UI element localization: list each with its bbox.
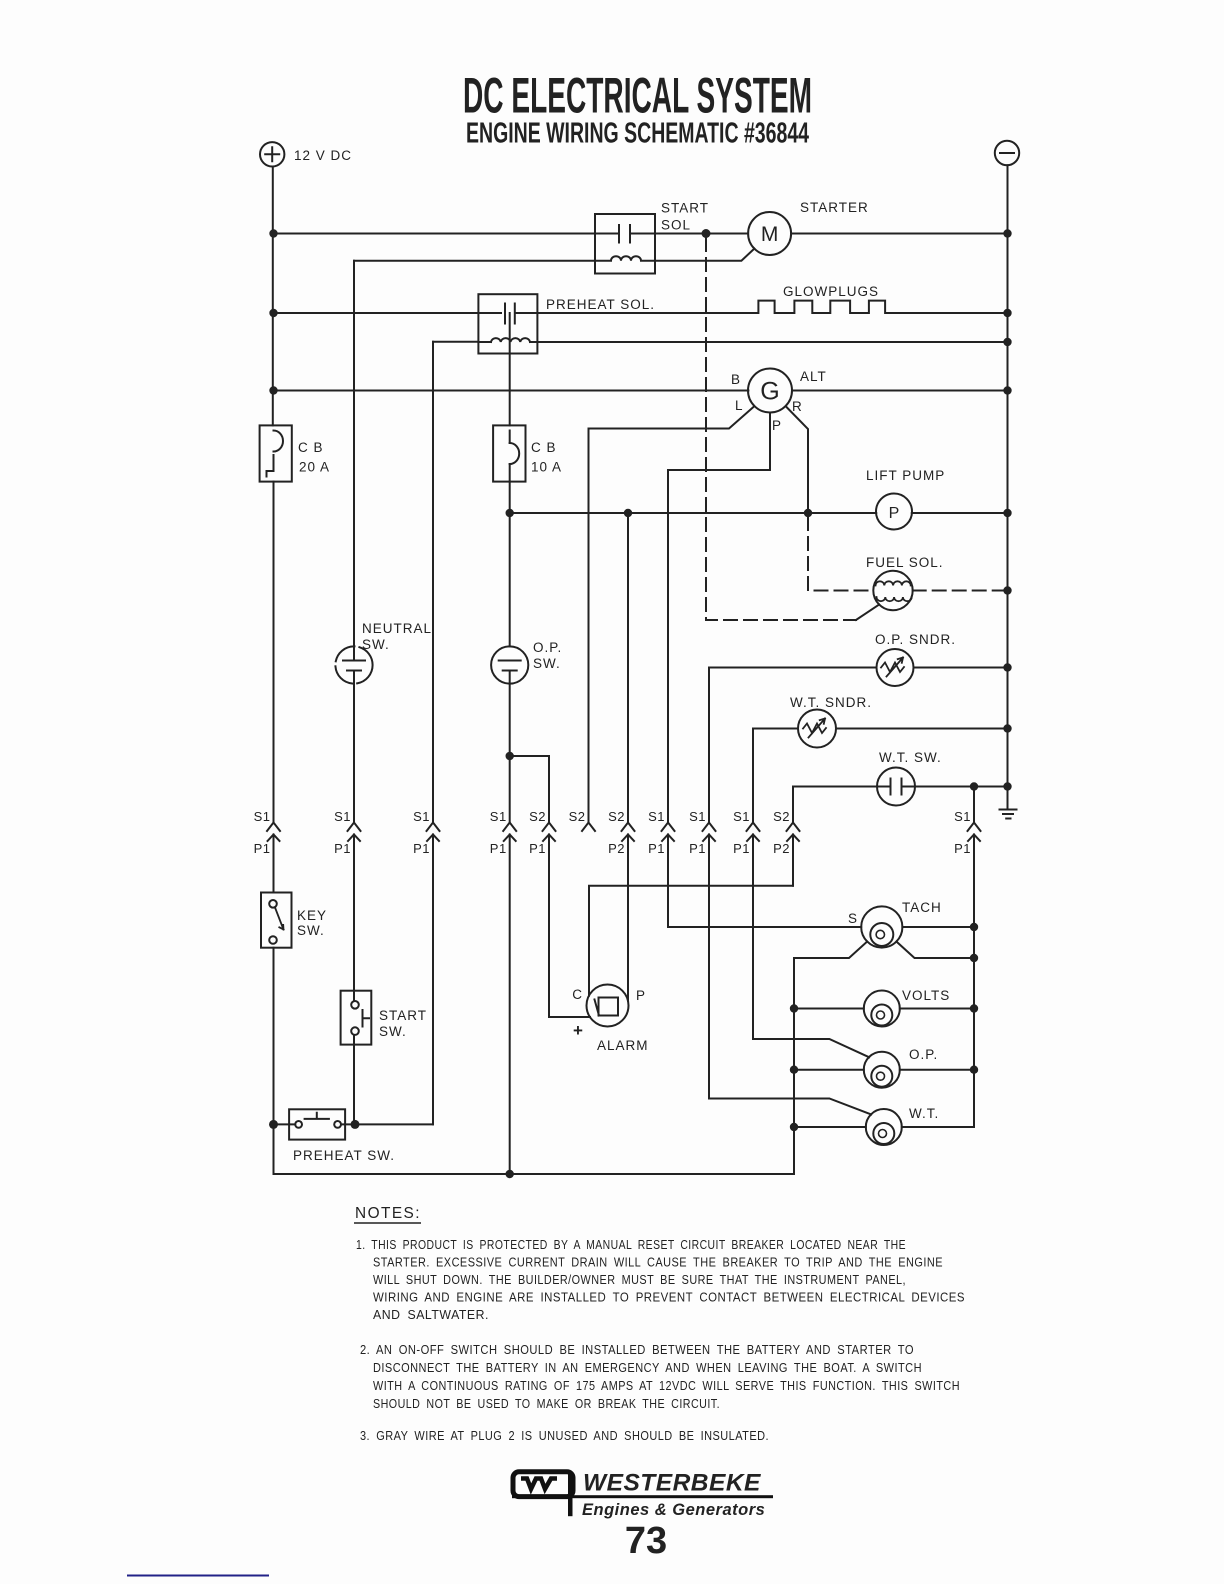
wire: op gauge feed from connector	[753, 1039, 869, 1057]
wire: neutral sw column upper	[353, 261, 355, 661]
wire: key sw to preheat row	[273, 948, 275, 1125]
svg-text:P1: P1	[689, 841, 706, 856]
connector S1/P1 at x=433	[427, 823, 440, 832]
wire: wt sw row	[793, 786, 1008, 788]
connector S2/P1 at x=549	[543, 823, 556, 832]
wire: preheat coil row to right bus	[537, 341, 1007, 343]
sender O.P. SNDR	[877, 649, 914, 686]
wire: alt row left (bus to ALT)	[274, 390, 749, 392]
svg-text:P2: P2	[608, 841, 625, 856]
wire: dashed start-sol to fuel-sol	[706, 238, 856, 620]
svg-text:PREHEAT SOL.: PREHEAT SOL.	[546, 297, 655, 312]
wire: right gauge feed column upper	[973, 787, 975, 823]
switch KEY SW	[261, 893, 292, 948]
svg-text:WIRING AND ENGINE ARE INST: WIRING AND ENGINE ARE INSTALLED TO PREVE…	[373, 1290, 965, 1305]
wire: coil out to starter body	[655, 249, 754, 261]
logo underline	[512, 1495, 773, 1498]
svg-text:ALARM: ALARM	[597, 1038, 649, 1053]
svg-text:STARTER: STARTER	[800, 200, 869, 215]
wire: op sw main down to connector	[509, 756, 511, 823]
solenoid FUEL SOL	[873, 571, 912, 610]
wire: alt to right bus	[792, 390, 1008, 392]
wire: ground right bus	[1007, 165, 1009, 786]
wire: alarm C link	[589, 886, 793, 996]
switch START SW	[341, 991, 372, 1045]
connector S2/none at x=588.5	[582, 823, 595, 832]
connector S1/P1 at x=354	[348, 823, 361, 832]
svg-text:P1: P1	[733, 841, 750, 856]
wire: ALT P lead down-left	[668, 413, 770, 823]
relay PREHEAT SOL	[478, 294, 537, 353]
wire: neutral sw column lower	[353, 671, 355, 823]
svg-text:O.P.: O.P.	[533, 640, 562, 655]
switch W.T. SW	[877, 768, 915, 806]
svg-text:WITH A CONTINUOUS RATING: WITH A CONTINUOUS RATING OF 175 AMPS AT …	[373, 1378, 960, 1393]
wire: op gauge row	[794, 1069, 974, 1071]
pump LIFT PUMP	[876, 494, 912, 530]
svg-text:S: S	[848, 911, 858, 926]
connector S1/P1 at x=509	[503, 823, 516, 832]
switch O.P. SW	[491, 646, 528, 683]
connector S1/P1 at x=668	[662, 823, 675, 832]
svg-text:P1: P1	[954, 841, 971, 856]
wire: wt sndr row	[753, 728, 1008, 730]
svg-text:S1: S1	[490, 809, 507, 824]
svg-text:P1: P1	[648, 841, 665, 856]
node: lift pump row junctions	[506, 509, 514, 517]
gauge VOLTS	[864, 991, 900, 1027]
svg-text:S1: S1	[689, 809, 706, 824]
wire: preheat cap row to glowplugs and right bus	[537, 312, 1007, 314]
footer blue line	[127, 1575, 269, 1577]
svg-text:SHOULD NOT BE USED TO MAK: SHOULD NOT BE USED TO MAKE OR BREAK THE …	[373, 1396, 720, 1411]
wire: alarm + feed	[549, 1016, 590, 1018]
wire: wt gauge row	[794, 1126, 974, 1128]
svg-text:G: G	[760, 378, 779, 406]
svg-text:LIFT PUMP: LIFT PUMP	[866, 468, 945, 483]
wire: tach bottom left diagonal	[794, 942, 867, 959]
wire: op sw lower lead	[509, 671, 511, 757]
svg-text:S1: S1	[648, 809, 665, 824]
gauge TACH	[861, 906, 902, 947]
svg-text:S1: S1	[954, 809, 971, 824]
wire: starter to right bus	[791, 233, 1007, 235]
svg-text:S1: S1	[334, 809, 351, 824]
svg-text:B: B	[731, 372, 741, 387]
svg-text:P1: P1	[413, 841, 430, 856]
svg-text:NEUTRAL: NEUTRAL	[362, 621, 432, 636]
junction dots right bus	[1003, 229, 1011, 237]
svg-text:KEY: KEY	[297, 908, 327, 923]
connector S1/P1 at x=753	[747, 823, 760, 832]
svg-text:SW.: SW.	[379, 1024, 407, 1039]
svg-text:73: 73	[625, 1520, 667, 1562]
svg-text:ENGINE WIRING SCHEMATIC #36844: ENGINE WIRING SCHEMATIC #36844	[466, 118, 809, 150]
svg-text:S2: S2	[569, 809, 586, 824]
svg-text:S2: S2	[608, 809, 625, 824]
svg-text:C B: C B	[298, 440, 324, 455]
svg-text:WILL SHUT DOWN. THE BUILDER: WILL SHUT DOWN. THE BUILDER/OWNER MUST B…	[373, 1272, 906, 1287]
svg-text:W.T.: W.T.	[909, 1106, 939, 1121]
svg-text:VOLTS: VOLTS	[902, 988, 950, 1003]
svg-text:SW.: SW.	[362, 637, 390, 652]
svg-text:W.T. SW.: W.T. SW.	[879, 750, 942, 765]
gauge W.T.	[866, 1109, 902, 1145]
svg-text:P1: P1	[254, 841, 271, 856]
switch NEUTRAL SW	[335, 646, 372, 683]
note 2	[360, 1342, 960, 1411]
svg-text:SW.: SW.	[533, 656, 561, 671]
node: tach right junction	[970, 923, 978, 931]
wire: lift pump row to connector S2	[627, 513, 629, 823]
wire: START SOL to starter M	[655, 233, 748, 235]
svg-text:S1: S1	[413, 809, 430, 824]
wire: tach bottom right diagonal	[896, 942, 974, 959]
svg-text:W.T. SNDR.: W.T. SNDR.	[790, 695, 872, 710]
alarm unit	[587, 985, 629, 1027]
wire: op sndr row	[709, 667, 1008, 669]
wire: op sw branch to alarm plus column	[510, 756, 549, 823]
svg-text:PREHEAT SW.: PREHEAT SW.	[293, 1148, 395, 1163]
svg-text:S2: S2	[773, 809, 790, 824]
wire: preheat coil row corner to left column	[433, 341, 478, 343]
svg-text:20 A: 20 A	[299, 460, 330, 475]
glowplugs element	[754, 301, 892, 313]
relay START SOL	[595, 214, 655, 274]
svg-text:FUEL SOL.: FUEL SOL.	[866, 555, 944, 570]
node: start sol junction	[702, 229, 711, 238]
wire: tach S row	[668, 926, 861, 928]
svg-text:S2: S2	[529, 809, 546, 824]
svg-text:C B: C B	[531, 440, 557, 455]
connector S1/P1 at x=273.5	[267, 823, 280, 832]
node: preheat sw junctions	[269, 1120, 278, 1129]
alternator ALT G	[748, 369, 792, 413]
wire: fuel sol lower lead diagonal	[856, 605, 879, 621]
note 3	[360, 1428, 769, 1443]
switch PREHEAT SW	[289, 1109, 345, 1139]
wire: +12V left bus (upper)	[272, 167, 274, 426]
svg-text:START: START	[379, 1008, 427, 1023]
svg-text:L: L	[735, 398, 744, 413]
logo W badge	[513, 1472, 573, 1497]
svg-text:Engines & Generators: Engines & Generators	[582, 1501, 765, 1519]
svg-text:TACH: TACH	[902, 900, 942, 915]
svg-text:P1: P1	[490, 841, 507, 856]
svg-text:2. AN ON-OFF SWITCH SHOULD: 2. AN ON-OFF SWITCH SHOULD BE INSTALLED …	[360, 1342, 914, 1357]
breaker CB 10A	[493, 425, 525, 481]
svg-text:NOTES:: NOTES:	[355, 1205, 421, 1222]
svg-text:DC ELECTRICAL SYSTEM: DC ELECTRICAL SYSTEM	[463, 68, 812, 124]
svg-text:3. GRAY WIRE AT PLUG 2 IS: 3. GRAY WIRE AT PLUG 2 IS UNUSED AND SHO…	[360, 1428, 769, 1443]
wire: column preheat coil down to connector	[432, 342, 434, 823]
wire: gauge left feed column	[793, 958, 795, 1174]
wire: lift pump row	[510, 482, 1008, 647]
logo flag pole	[568, 1472, 573, 1516]
wire: tach right to column	[902, 926, 974, 928]
wire: ALT R lead to lift pump row	[786, 406, 808, 513]
motor STARTER	[748, 212, 791, 255]
connector S1/P1 at x=974	[968, 823, 981, 832]
svg-text:S1: S1	[254, 809, 271, 824]
node: op sw branch junction	[506, 752, 514, 760]
svg-text:P1: P1	[529, 841, 546, 856]
wire: ALT L lead to connector column	[589, 406, 755, 822]
wire: volts row	[794, 1008, 974, 1010]
wire: preheat row left (bus to preheat sol)	[274, 312, 502, 314]
wire: dashed fuel sol to right bus	[913, 590, 1008, 592]
svg-text:P1: P1	[334, 841, 351, 856]
node: tach bottom right junction	[970, 954, 978, 962]
svg-text:1. THIS PRODUCT IS PROTECTE: 1. THIS PRODUCT IS PROTECTED BY A MANUAL…	[356, 1237, 906, 1252]
svg-text:O.P. SNDR.: O.P. SNDR.	[875, 632, 956, 647]
sender W.T. SNDR	[798, 710, 836, 748]
svg-text:ALT: ALT	[800, 369, 827, 384]
battery - terminal	[995, 141, 1019, 165]
svg-text:START: START	[661, 201, 709, 216]
connector S1/P1 at x=709	[703, 823, 716, 832]
svg-text:12 V DC: 12 V DC	[294, 148, 352, 163]
svg-text:P: P	[889, 505, 900, 522]
battery + terminal	[260, 142, 284, 166]
svg-text:P: P	[772, 418, 782, 433]
svg-text:P2: P2	[773, 841, 790, 856]
wire: bottom bus	[274, 1124, 795, 1174]
connector S2/P2 at x=628	[622, 823, 635, 832]
svg-text:SOL: SOL	[661, 218, 691, 233]
wire: wt sw column down to connector	[792, 787, 794, 823]
wire: preheat sol center down to CB 10A	[509, 313, 511, 425]
wire: left bus CB20A to connector S1	[273, 482, 275, 823]
connector S2/P2 at x=793	[787, 823, 800, 832]
svg-text:STARTER. EXCESSIVE CURRENT D: STARTER. EXCESSIVE CURRENT DRAIN WILL CA…	[373, 1255, 943, 1270]
wire: start sol coil row to left column	[354, 260, 595, 262]
junction dots left bus	[269, 229, 277, 237]
svg-text:SW.: SW.	[297, 923, 325, 938]
svg-text:DISCONNECT THE BATTERY IN: DISCONNECT THE BATTERY IN AN EMERGENCY A…	[373, 1360, 922, 1375]
svg-text:AND SALTWATER.: AND SALTWATER.	[373, 1307, 489, 1322]
svg-text:C: C	[572, 987, 583, 1002]
wire: wt sndr column down to connector	[752, 729, 754, 823]
wire: starter row left (bus to START SOL)	[274, 233, 596, 235]
svg-text:GLOWPLUGS: GLOWPLUGS	[783, 284, 879, 299]
node: wt sw right junction	[970, 782, 978, 790]
wire: dashed alt R to fuel sol	[808, 517, 873, 591]
svg-text:WESTERBEKE: WESTERBEKE	[583, 1470, 761, 1497]
svg-text:P: P	[636, 988, 646, 1003]
note 1	[356, 1237, 965, 1322]
ground symbol	[1000, 787, 1017, 819]
svg-text:S1: S1	[733, 809, 750, 824]
wire: wt gauge feed from connector	[709, 1099, 871, 1115]
svg-text:10 A: 10 A	[531, 460, 562, 475]
breaker CB 20A	[260, 425, 292, 481]
wire: op sndr column down to connector	[708, 668, 710, 823]
svg-text:O.P.: O.P.	[909, 1047, 938, 1062]
svg-text:M: M	[761, 223, 779, 246]
node: bottom bus junction	[506, 1170, 514, 1178]
wire: gauge right feed column	[973, 835, 975, 1128]
svg-text:+: +	[573, 1021, 583, 1040]
gauge O.P.	[864, 1052, 900, 1088]
svg-text:R: R	[792, 399, 803, 414]
